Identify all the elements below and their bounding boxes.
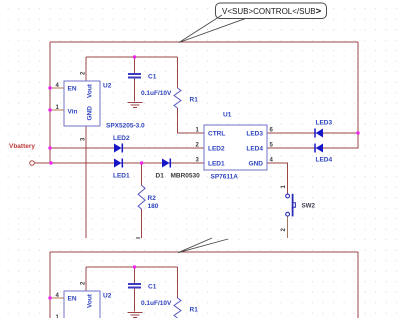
callout pointer lines [179,15,245,43]
junction node (50,298) [48,296,51,299]
op-amp U2 box SPX5205 [64,81,100,126]
ground symbol b [128,313,143,318]
op-amp U1 box SP7611A [204,125,267,170]
wire C1b leads [134,267,136,312]
ground symbol [128,103,143,108]
pin U2 Vin stub [50,109,64,111]
svg-text:SW2: SW2 [302,203,316,210]
svg-text:Vin: Vin [68,109,78,116]
svg-text:MBR0530: MBR0530 [171,173,201,180]
wire bottom border [50,251,358,253]
op-amp U2b box [64,291,100,318]
svg-text:180: 180 [148,203,159,210]
svg-text:LED4: LED4 [316,157,333,164]
svg-text:EN: EN [68,86,77,93]
svg-text:R1: R1 [190,307,199,314]
svg-text:Vout: Vout [87,83,94,98]
wire left vertical [49,42,51,163]
wire Vbattery port [35,162,52,164]
svg-text:CTRL: CTRL [208,131,225,138]
svg-text:LED3: LED3 [246,131,263,138]
junction node (50,88) [48,86,51,89]
svg-text:EN: EN [68,296,77,303]
junction node (50,110) [48,108,51,111]
svg-text:C1: C1 [148,284,157,291]
svg-text:R2: R2 [148,195,157,202]
svg-text:Vout: Vout [87,293,94,308]
svg-text:LED1: LED1 [113,173,130,180]
wire R2 end dash [136,237,140,239]
wire LED4 row [267,147,358,149]
callout bubble Vcontrol [216,3,327,19]
svg-text:GND: GND [249,161,264,168]
resistor R2 [138,185,145,209]
wire Vout rail 2 [86,266,178,268]
svg-text:LED2: LED2 [208,146,225,153]
wire U2b pin2 [85,267,87,291]
junction node C1 top [133,55,136,58]
svg-text:C1: C1 [148,74,157,81]
svg-text:LED4: LED4 [246,146,263,153]
resistor R1 b [174,298,181,318]
svg-text:LED1: LED1 [208,161,225,168]
svg-text:V<SUB>CONTROL</SUB>: V<SUB>CONTROL</SUB> [222,6,322,17]
svg-text:U1: U1 [223,112,232,119]
diode D1 [162,159,170,168]
wire LED1 row [51,162,204,164]
diode LED4 [315,144,323,153]
diode LED2 [114,144,122,153]
junction node (51,163) [49,161,52,164]
pin U2 EN stub [50,87,64,89]
svg-text:U2: U2 [103,83,112,90]
wire LED2 row [50,147,204,149]
svg-text:R1: R1 [190,97,199,104]
capacitor C1 b [128,284,141,288]
wire top border Vcontrol net [50,41,358,43]
wire bottom left vertical [49,252,51,318]
callout pointer lines 2 [178,238,228,253]
diode LED3 [315,129,323,138]
svg-text:SPX5205-3.0: SPX5205-3.0 [106,123,145,130]
wire U2 pin2 [85,57,87,81]
svg-text:LED3: LED3 [316,120,333,127]
transistor SW2 pushbutton [286,194,296,217]
wire U1 GND to SW2 [267,163,288,194]
svg-text:Vbattery: Vbattery [9,143,35,150]
wire LED3 row [267,132,358,134]
svg-text:0.1uF/10V: 0.1uF/10V [141,300,172,307]
wire R1 leads [178,57,205,133]
wire right vertical [323,42,358,148]
pin U2b EN stub [50,297,64,299]
wire bottom right vertical [357,252,359,318]
junction node (50,148) [48,146,51,149]
port Vbattery circle [30,161,35,166]
junction node LED3 right [356,131,359,134]
junction node R2 top [140,161,143,164]
wire SW2 bottom [287,216,289,238]
junction node C1b top [133,265,136,268]
diode LED1 [114,159,122,168]
svg-text:SP7611A: SP7611A [211,174,239,181]
resistor R1 [174,88,181,108]
wire R1b leads [177,267,179,298]
wire Vout rail [86,56,178,58]
svg-text:U2: U2 [103,293,112,300]
wire R2 leads [141,163,143,238]
svg-text:GND: GND [87,106,94,121]
capacitor C1 [128,74,141,78]
wire C1 leads [134,57,136,102]
svg-text:0.1uF/10V: 0.1uF/10V [141,90,172,97]
svg-text:LED2: LED2 [113,135,130,142]
svg-text:D1: D1 [156,173,165,180]
wire U2 pin3 down [85,126,87,238]
